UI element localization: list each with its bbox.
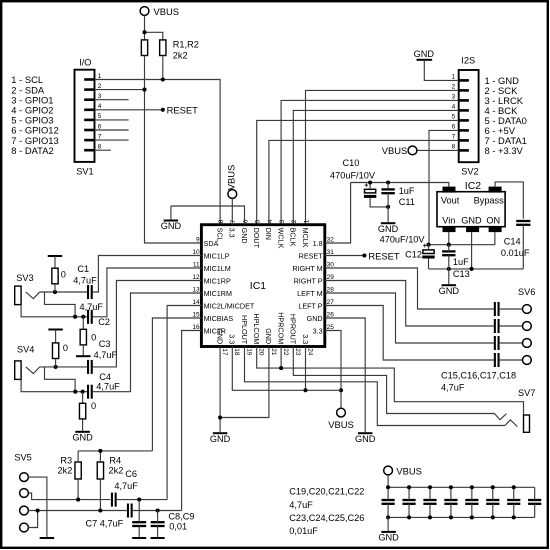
junction bottom rail [386, 515, 390, 519]
capacitor C15 [495, 302, 499, 316]
svg-text:7: 7 [230, 219, 237, 223]
wire LRCK to WCLK (IC1-3) [281, 100, 459, 224]
SV1 pin 3 contact [84, 98, 94, 101]
ground (IC1 top) [164, 220, 179, 222]
svg-text:0: 0 [91, 333, 96, 343]
wire C21 top stem [429, 487, 431, 500]
SV2 pin 5 contact [459, 119, 469, 122]
svg-text:31: 31 [327, 249, 335, 256]
wire MIC2L (IC1-14) down to C6 [167, 306, 201, 500]
svg-text:C2: C2 [98, 317, 110, 327]
ground (IC1-26) [358, 432, 373, 434]
wire GND rail to IC1-6 [171, 206, 245, 225]
wire C23 top stem [471, 487, 473, 500]
svg-text:21: 21 [270, 348, 277, 356]
junction top rail [470, 485, 474, 489]
SV5 terminal 4 [20, 523, 29, 532]
SV2 pin 7 contact [459, 139, 469, 142]
junction Vin rail / +5V [426, 243, 430, 247]
svg-text:4: 4 [98, 103, 102, 110]
svg-text:26: 26 [327, 311, 335, 318]
wire C12 bottom stem [428, 259, 430, 269]
svg-text:29: 29 [327, 274, 335, 281]
svg-text:GND: GND [461, 215, 482, 225]
connector SV7 jack body [524, 415, 530, 432]
capacitor C2 4,7uF [88, 310, 92, 324]
ground (below IC1) [213, 432, 228, 434]
wire R to tip [54, 284, 56, 292]
capacitor C8 0,01 [132, 522, 146, 526]
wire C26 bottom stem [534, 504, 536, 518]
svg-text:27: 27 [327, 299, 335, 306]
svg-text:MIC1LM: MIC1LM [204, 264, 231, 273]
junction R4 / MICBIAS rail [98, 449, 102, 453]
capacitor C3 4,7uF [88, 360, 92, 374]
svg-text:0,01uF: 0,01uF [289, 526, 318, 536]
wire bar to R [54, 256, 56, 268]
svg-text:SV5: SV5 [14, 453, 31, 463]
svg-text:28: 28 [327, 286, 335, 293]
IC2 GND pad [466, 226, 479, 232]
svg-text:C13: C13 [453, 269, 470, 279]
svg-text:15: 15 [192, 311, 200, 318]
connector SV3 jack body [15, 286, 21, 305]
svg-text:2: 2 [291, 219, 298, 223]
svg-text:C14: C14 [504, 237, 521, 247]
svg-text:HPLOUT: HPLOUT [240, 315, 249, 345]
wire C19 bottom stem [387, 504, 389, 518]
resistor R 0 (SV4 sleeve) [79, 403, 85, 419]
capacitor C6 4,7uF [112, 493, 116, 507]
wire SV7 tip contact notch [494, 414, 506, 420]
svg-text:1uF: 1uF [399, 186, 415, 196]
junction SV5-3/SV5-4 [36, 508, 40, 512]
wire C17 to SV6-3 [499, 342, 523, 344]
wire C13 top stem [448, 245, 450, 252]
wire R3 top lead [77, 451, 79, 462]
capacitor C25 [507, 500, 520, 504]
wire R4 top lead [99, 451, 101, 462]
svg-text:3: 3 [98, 93, 102, 100]
wire SV4 switch contact [45, 367, 76, 392]
svg-text:Bypass: Bypass [474, 196, 505, 206]
svg-text:16: 16 [192, 324, 200, 331]
svg-text:22: 22 [282, 348, 289, 356]
wire HPRCOM (IC1-22) [280, 347, 282, 369]
junction bottom rail [491, 515, 495, 519]
wire R to tip [55, 359, 57, 367]
svg-text:1uF: 1uF [453, 257, 469, 267]
SV5 terminal 2 [20, 489, 29, 498]
SV2 pin 4 contact [459, 109, 469, 112]
ground bar (above SV2) [417, 59, 433, 61]
svg-text:6: 6 [452, 124, 456, 131]
SV1 pin 7 contact [84, 139, 94, 142]
wire SCL net (SV1-1 to IC1-8) [95, 80, 221, 225]
resistor R 0 (SV4 tip) [52, 343, 58, 359]
wire HPLOUT to SV7 ring [245, 347, 505, 426]
wire C21 bottom stem [429, 504, 431, 518]
capacitor C16 [495, 319, 499, 333]
svg-text:2: 2 [98, 83, 102, 90]
junction 3.3 rail / pin25 [339, 388, 343, 392]
wire SV5-2 row [28, 493, 110, 500]
connector SV1 (I/O header) [75, 70, 95, 162]
svg-text:R3: R3 [60, 456, 72, 466]
svg-text:SV2: SV2 [461, 167, 478, 177]
svg-text:3.3: 3.3 [301, 334, 310, 344]
svg-text:4,7uF: 4,7uF [289, 500, 313, 510]
wire SV4 tip contact notch [26, 367, 40, 374]
svg-text:MCLK: MCLK [301, 228, 310, 248]
svg-text:20: 20 [258, 348, 265, 356]
resistor R 0 (SV3 tip) [52, 268, 58, 284]
SV6 terminal 1 [523, 305, 532, 314]
IC2 Vout pad [443, 187, 456, 193]
junction RESET at SV1 [161, 108, 165, 112]
svg-text:1: 1 [452, 74, 456, 81]
wire C25 bottom stem [513, 504, 515, 518]
supply VBUS terminal (top) [140, 7, 149, 16]
capacitor C13 1uF [442, 251, 455, 255]
wire R2 to SCL net [162, 56, 164, 80]
svg-text:8 - DATA2: 8 - DATA2 [11, 145, 53, 156]
junction C6 / C8 [137, 498, 141, 502]
svg-text:1: 1 [98, 73, 102, 80]
svg-text:6: 6 [98, 123, 102, 130]
wire GND stem (IC1 top) [170, 206, 172, 220]
wire SV3 tip contact notch [26, 292, 40, 299]
wire MICBIAS rail [78, 450, 152, 452]
op-amp codec IC1 body [201, 225, 324, 347]
svg-text:C6: C6 [125, 469, 137, 479]
wire RIGHT M to C15 [325, 268, 495, 309]
svg-text:4,7uF: 4,7uF [114, 481, 138, 491]
wire C20 top stem [408, 487, 410, 500]
svg-text:4: 4 [267, 219, 274, 223]
junction top rail [386, 485, 390, 489]
ground bar (SV3 bottom) [76, 355, 91, 357]
svg-text:8: 8 [98, 144, 102, 151]
svg-text:12: 12 [192, 274, 200, 281]
junction R2/SCL [161, 77, 165, 81]
svg-text:9: 9 [196, 236, 200, 243]
wire ON stem [494, 232, 496, 245]
ground (IC2) [442, 284, 457, 286]
wire C22 top stem [450, 487, 452, 500]
wire C4 to MIC1RM (IC1-13) [92, 293, 201, 392]
svg-text:11: 11 [193, 261, 200, 268]
svg-text:3.3: 3.3 [228, 228, 237, 238]
svg-text:C15,C16,C17,C18: C15,C16,C17,C18 [441, 371, 516, 381]
svg-text:GND: GND [378, 533, 399, 543]
svg-text:SV6: SV6 [518, 287, 535, 297]
svg-text:7: 7 [452, 134, 456, 141]
wire C15 to SV6-1 [499, 308, 523, 310]
svg-text:2k2: 2k2 [173, 51, 188, 61]
svg-text:SV3: SV3 [16, 273, 33, 283]
junction SV4 tip / R-0 [54, 365, 58, 369]
svg-text:I/O: I/O [79, 57, 91, 67]
capacitor C7 4,7uF [128, 504, 132, 518]
resistor R3 2k2 [75, 462, 81, 479]
capacitor C9 0,01 [151, 522, 165, 526]
wire SV2-1 to GND [424, 60, 458, 81]
wire RIGHT P to C16 [325, 281, 495, 327]
svg-text:13: 13 [192, 286, 200, 293]
SV1 pin 2 contact [84, 88, 94, 91]
wire R4 bottom lead [99, 479, 101, 511]
junction SV3 tip / R-0 [53, 290, 57, 294]
svg-text:DOUT: DOUT [252, 228, 261, 249]
svg-text:C11: C11 [399, 197, 415, 207]
wire SCK to MCLK (IC1-1) [306, 90, 459, 224]
supply VBUS terminal (at SV2) [408, 146, 417, 155]
svg-text:0: 0 [91, 401, 96, 411]
svg-text:2k2: 2k2 [109, 466, 124, 476]
wire SV5-1 to ground [28, 477, 47, 537]
junction top rail [491, 485, 495, 489]
svg-text:1: 1 [303, 219, 310, 223]
junction Vin / C13 [447, 243, 451, 247]
junction SV4 switch/sleeve [73, 390, 77, 394]
resistor R1 [141, 40, 147, 56]
svg-text:C1: C1 [77, 264, 89, 274]
SV2 pin 3 contact [459, 99, 469, 102]
wire Vin stem [448, 232, 450, 245]
junction GND rail [218, 415, 222, 419]
svg-text:470uF/10V: 470uF/10V [380, 234, 426, 244]
SV2 pin 1 contact [459, 79, 469, 82]
wire VBUS branch to R2 [145, 32, 163, 40]
svg-text:C10: C10 [343, 158, 360, 168]
wire 3.3 (IC1-25) to VBUS [325, 331, 341, 408]
svg-text:3.3: 3.3 [228, 334, 237, 344]
svg-text:6: 6 [242, 219, 249, 223]
svg-text:SV7: SV7 [518, 388, 535, 398]
capacitor C19 [382, 500, 395, 504]
wire sleeve to R [82, 392, 84, 404]
junction VBUS split [142, 30, 146, 34]
svg-text:3: 3 [452, 94, 456, 101]
wire C19 top stem [387, 487, 389, 500]
svg-text:LEFT M: LEFT M [297, 289, 322, 298]
svg-text:GND: GND [307, 314, 323, 323]
wire C6 to MIC2L [116, 499, 167, 501]
svg-text:SV1: SV1 [76, 167, 93, 177]
svg-text:23: 23 [294, 348, 301, 356]
wire Vin rail [429, 244, 495, 246]
junction top rail [512, 485, 516, 489]
svg-text:VBUS: VBUS [226, 165, 237, 191]
svg-text:GND: GND [264, 328, 273, 344]
junction bottom rail [449, 515, 453, 519]
wire C8 bottom stem [138, 526, 140, 537]
svg-text:R1,R2: R1,R2 [173, 40, 199, 50]
wire 1.8V (IC1-32) up to C10 rail [325, 183, 351, 244]
wire GND stem (IC2) [448, 269, 450, 284]
svg-text:IC1: IC1 [250, 280, 266, 292]
svg-text:GND: GND [210, 434, 231, 444]
wire LEFT M to C17 [325, 293, 495, 343]
wire MICBIAS (IC1-15) down to R3/R4 [152, 318, 201, 451]
wire GND pad stem [471, 232, 473, 269]
SV2 pin 2 contact [459, 89, 469, 92]
capacitor C22 [444, 500, 457, 504]
svg-text:4: 4 [452, 104, 456, 111]
junction top rail [428, 485, 432, 489]
junction bottom rail [512, 515, 516, 519]
svg-text:IC2: IC2 [465, 180, 482, 192]
supply VBUS terminal (below IC1) [337, 408, 346, 417]
svg-text:RIGHT P: RIGHT P [294, 276, 323, 285]
wire C3 to MIC1RP (IC1-12) [92, 281, 201, 367]
ground bar (C9) [151, 537, 165, 539]
svg-text:C3: C3 [99, 339, 111, 349]
svg-text:10: 10 [192, 249, 200, 256]
svg-text:5: 5 [452, 114, 456, 121]
wire C13 bottom stem [448, 255, 450, 269]
junction top rail [407, 485, 411, 489]
wire cap bank top rail [388, 486, 535, 488]
wire VBUS to R1 [144, 15, 146, 40]
wire R to GND [82, 419, 84, 431]
svg-text:HPLCOM: HPLCOM [252, 313, 261, 344]
wire HPLCOM to SV7 sleeve [257, 347, 524, 416]
wire RESET (IC1-31) [325, 255, 365, 257]
wire DATA1 to DIN (IC1-4) [269, 140, 459, 224]
svg-text:Vin: Vin [442, 215, 455, 225]
svg-text:14: 14 [192, 299, 200, 306]
wire GND stem (cap bank) [387, 517, 389, 531]
capacitor C12 470uF/10V (polarized) [422, 243, 434, 258]
ground bar (SV3 top) [48, 255, 63, 257]
wire +5V (SV2-6) down to IC2 Vin rail [429, 130, 459, 244]
capacitor C14 0.01uF [516, 221, 530, 225]
ground bar (SV5) [40, 537, 55, 539]
svg-text:+: + [423, 243, 427, 250]
svg-text:25: 25 [327, 324, 335, 331]
capacitor C4 4,7uF [88, 385, 92, 399]
junction 3.3 rail / pin24 [303, 388, 307, 392]
svg-text:8: 8 [218, 219, 225, 223]
junction C10/C11 [386, 205, 390, 209]
svg-text:1.8: 1.8 [313, 239, 323, 248]
svg-text:MIC2L/MICDET: MIC2L/MICDET [204, 301, 255, 310]
svg-text:VBUS: VBUS [154, 6, 180, 17]
capacitor C23 [465, 500, 478, 504]
junction GND rail / C13 [447, 267, 451, 271]
svg-text:MICBIAS: MICBIAS [204, 314, 234, 323]
wire C24 bottom stem [492, 504, 494, 518]
svg-text:32: 32 [327, 236, 335, 243]
resistor R 0 (SV3 sleeve) [80, 329, 86, 345]
SV1 pin 1 contact [84, 78, 94, 81]
wire C14 bottom stem [522, 225, 524, 269]
junction bottom rail [428, 515, 432, 519]
svg-text:RESET: RESET [368, 250, 400, 261]
wire C12 top stem [428, 245, 430, 250]
wire 3.3 (IC1-24) [305, 347, 307, 391]
connector SV4 jack body [15, 361, 21, 380]
svg-text:3.3: 3.3 [313, 326, 323, 335]
junction R1/SDA [142, 88, 146, 92]
svg-text:SV4: SV4 [17, 344, 34, 354]
svg-text:LEFT P: LEFT P [298, 301, 322, 310]
svg-text:4,7uF: 4,7uF [441, 383, 465, 393]
wire cap bank bottom rail [388, 516, 535, 518]
wire GND (IC1-17) down [219, 347, 221, 432]
svg-text:RESET: RESET [299, 251, 324, 260]
SV2 pin 8 contact [459, 149, 469, 152]
svg-text:4,7uF: 4,7uF [73, 276, 97, 286]
svg-text:R4: R4 [109, 456, 121, 466]
svg-text:Vout: Vout [441, 196, 460, 206]
svg-text:C4: C4 [99, 372, 111, 382]
svg-text:MIC1RM: MIC1RM [204, 289, 232, 298]
svg-text:ON: ON [486, 215, 500, 225]
wire SV4 sleeve [21, 379, 88, 391]
svg-text:470uF/10V: 470uF/10V [330, 170, 376, 180]
wire C8 top stem [138, 500, 140, 523]
resistor R4 2k2 [97, 462, 103, 479]
svg-text:8: 8 [452, 144, 456, 151]
svg-text:0: 0 [61, 270, 66, 280]
wire C20 bottom stem [408, 504, 410, 518]
junction R4 / SV5-3 row [98, 508, 102, 512]
svg-text:C19,C20,C21,C22: C19,C20,C21,C22 [289, 486, 364, 496]
svg-text:RESET: RESET [167, 105, 199, 116]
wire C10 bottom to C11 [370, 198, 388, 207]
svg-text:4,7uF: 4,7uF [80, 302, 104, 312]
junction GND rail / GND pad [470, 267, 474, 271]
capacitor C26 [528, 500, 541, 504]
wire R3 bottom lead [77, 479, 79, 500]
wire SV1-5 stub [95, 119, 129, 121]
wire GND (IC1-26) down [325, 318, 365, 432]
svg-text:DIN: DIN [264, 228, 273, 240]
wire SV1-6 stub [95, 129, 129, 131]
svg-text:GND: GND [72, 432, 93, 442]
svg-text:0.01uF: 0.01uF [501, 248, 530, 258]
svg-text:+: + [364, 183, 368, 190]
SV5 terminal 3 [20, 506, 29, 515]
junction bottom rail [470, 515, 474, 519]
svg-text:MIC1LP: MIC1LP [204, 251, 230, 260]
wire C1 to MIC1LP (IC1-10) [92, 256, 201, 293]
svg-text:WCLK: WCLK [276, 228, 285, 249]
svg-text:GND: GND [378, 224, 399, 234]
svg-text:HPROUT: HPROUT [289, 314, 298, 345]
junction HPLCOM/HPRCOM [279, 366, 283, 370]
wire SV1-8 stub [95, 149, 111, 151]
junction R3 / SV5-2 row [76, 498, 80, 502]
wire SV3 sleeve [21, 305, 88, 317]
wire C9 top stem [157, 511, 159, 523]
svg-text:VBUS: VBUS [396, 465, 422, 476]
capacitor C20 [402, 500, 415, 504]
svg-text:3: 3 [279, 219, 286, 223]
ground (C11) [381, 222, 396, 224]
wire DATA0 to DOUT (IC1-5) [257, 120, 459, 224]
svg-text:VBUS: VBUS [328, 419, 354, 430]
junction rail/C11 [386, 180, 390, 184]
svg-text:BCLK: BCLK [289, 228, 298, 247]
ground (SV4) [75, 431, 90, 433]
SV6 terminal 3 [523, 339, 532, 348]
svg-text:GND: GND [355, 434, 376, 444]
IC2 Vin pad [443, 226, 456, 232]
